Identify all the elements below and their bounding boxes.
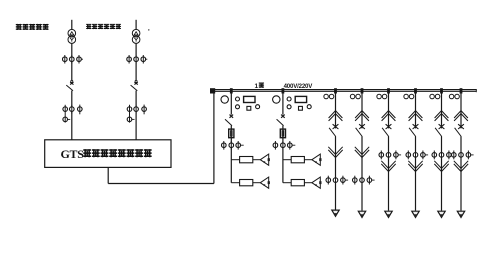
svg-text:GTS: GTS — [61, 147, 85, 161]
svg-text:1: 1 — [255, 83, 259, 90]
svg-text:400V/220V: 400V/220V — [284, 83, 314, 90]
